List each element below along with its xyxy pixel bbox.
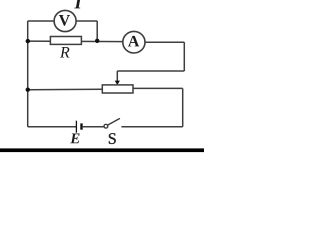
wire left vertical branch [27,21,29,127]
wire resistor row [28,40,124,43]
battery long plate [75,121,77,133]
node junction dot left mid row [26,88,30,92]
wire wiper vertical [116,71,118,82]
ammeter letter A [128,36,139,47]
battery label E [70,133,79,143]
wire wiper row [117,70,184,72]
wire top voltmeter row [28,20,98,22]
wire battery to switch [83,126,104,128]
current label I [74,0,82,8]
wire right upper vertical (ammeter loop) [183,42,185,71]
resistor label R [60,47,70,57]
wire mid row left [28,88,103,91]
voltmeter circle V [54,10,76,31]
wiper arrowhead [115,81,120,85]
node junction dot right resistor row [95,39,99,43]
wire voltmeter-to-node vertical [96,21,98,41]
rheostat body [102,85,133,93]
wire bottom row left of battery [28,126,76,128]
resistor R body [50,37,81,45]
voltmeter letter V [59,15,70,26]
switch pivot circle [104,124,108,128]
battery short thick plate [80,123,82,129]
wire rheostat right to corner [133,87,183,89]
switch lever [108,118,120,125]
wire right lower vertical (main loop) [182,88,184,126]
wire switch to right corner [121,126,182,128]
wire ammeter to right corner [145,41,185,43]
node junction dot left resistor row [26,39,30,43]
bottom black separator bar [0,148,204,152]
ammeter circle A [123,31,145,53]
switch label S [109,133,116,144]
